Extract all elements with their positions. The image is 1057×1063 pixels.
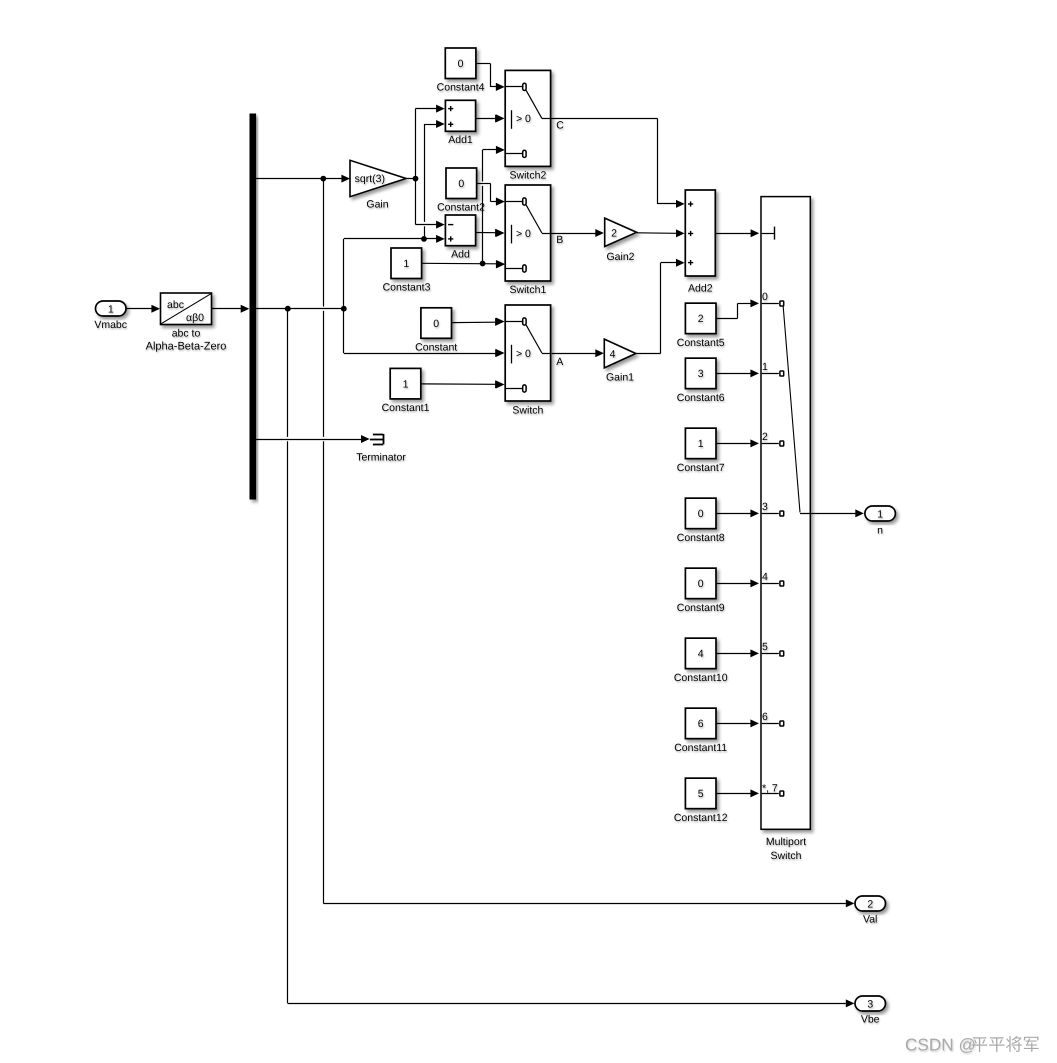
constant block Constant10 value 4 bbox=[674, 638, 728, 684]
svg-text:4: 4 bbox=[610, 349, 616, 361]
wire Constant9 to Multiport port 4 bbox=[716, 579, 759, 587]
constant block Constant8 value 0 bbox=[677, 498, 725, 544]
svg-text:Constant7: Constant7 bbox=[677, 462, 725, 474]
wire Constant5 to Multiport port 0 bbox=[716, 299, 759, 318]
wire Constant3 to Switch1 in2 bbox=[422, 260, 505, 268]
wire ctrl branch to Switch control bbox=[344, 309, 504, 357]
svg-text:Constant1: Constant1 bbox=[382, 402, 430, 414]
svg-text:αβ0: αβ0 bbox=[186, 312, 204, 324]
constant block Constant4 value 0 bbox=[437, 48, 485, 94]
svg-text:2: 2 bbox=[698, 313, 704, 325]
svg-text:Gain1: Gain1 bbox=[606, 372, 634, 384]
junction dot Add1 branch bbox=[421, 236, 427, 242]
outport 2 Val bbox=[855, 896, 886, 926]
svg-text:1: 1 bbox=[877, 508, 883, 520]
constant block Constant11 value 6 bbox=[674, 708, 727, 754]
svg-text:Constant11: Constant11 bbox=[674, 742, 727, 754]
wire Constant12 to Multiport port 7 bbox=[716, 789, 759, 797]
sum block Add1 bbox=[445, 100, 475, 146]
bus bar (mux) bbox=[250, 114, 257, 500]
svg-text:0: 0 bbox=[433, 318, 439, 330]
svg-text:Terminator: Terminator bbox=[356, 452, 406, 464]
svg-text:Constant2: Constant2 bbox=[437, 201, 485, 213]
Terminator block bbox=[356, 434, 406, 464]
wire abc block to bus bbox=[212, 305, 249, 313]
junction dot Constant3 branch bbox=[480, 261, 486, 267]
wire Constant11 to Multiport port 6 bbox=[716, 719, 759, 727]
constant block Constant value 0 bbox=[415, 308, 457, 354]
wire Gain out down to Add minus input bbox=[416, 179, 445, 229]
svg-text:> 0: > 0 bbox=[516, 113, 531, 125]
inport 1 Vmabc bbox=[94, 301, 127, 331]
svg-text:Val: Val bbox=[863, 914, 877, 926]
svg-text:2: 2 bbox=[762, 431, 768, 443]
wire Gain out up to Add1 first input bbox=[416, 105, 445, 179]
outport 1 n bbox=[865, 506, 896, 536]
svg-text:Constant9: Constant9 bbox=[677, 602, 725, 614]
svg-text:0: 0 bbox=[458, 178, 464, 190]
switch block Switch bbox=[496, 305, 551, 416]
constant block Constant2 value 0 bbox=[437, 168, 485, 213]
node C label bbox=[556, 120, 564, 132]
svg-text:Vmabc: Vmabc bbox=[94, 319, 127, 331]
wire Constant6 to Multiport port 1 bbox=[716, 369, 759, 377]
wire long vertical to Val bbox=[323, 179, 854, 908]
wire long vertical to Vbe bbox=[288, 309, 855, 1008]
svg-text:Constant8: Constant8 bbox=[677, 532, 725, 544]
wire ctrl branch up to Add plus input bbox=[344, 235, 445, 309]
svg-text:Add: Add bbox=[451, 248, 470, 260]
svg-text:C: C bbox=[556, 120, 564, 132]
wire Gain2 to Add2 in2 bbox=[637, 229, 685, 237]
switch block Switch1 bbox=[496, 185, 551, 296]
wire Multiport Switch output to outport n bbox=[800, 509, 864, 517]
svg-text:Gain: Gain bbox=[366, 199, 388, 211]
wire Constant3 branch up to Switch2 in2 bbox=[483, 146, 505, 264]
junction dot on Gain wire bbox=[320, 176, 326, 182]
outport 3 Vbe bbox=[855, 996, 886, 1026]
gain block Gain2 value 2 bbox=[605, 218, 637, 263]
wire Constant2 to Switch1 in1 bbox=[477, 184, 505, 206]
svg-text:sqrt(3): sqrt(3) bbox=[355, 173, 385, 185]
wire Add2 to Multiport Switch control bbox=[716, 229, 760, 237]
svg-text:1: 1 bbox=[698, 438, 704, 450]
svg-text:3: 3 bbox=[698, 368, 704, 380]
svg-text:Vbe: Vbe bbox=[861, 1014, 880, 1026]
svg-text:Constant4: Constant4 bbox=[437, 82, 485, 94]
svg-text:0: 0 bbox=[698, 508, 704, 520]
constant block Constant6 value 3 bbox=[677, 358, 725, 404]
wire bus main alpha line y309 bbox=[256, 308, 344, 310]
wire Gain1 up to Add2 in3 bbox=[636, 259, 685, 354]
svg-text:2: 2 bbox=[611, 227, 617, 239]
svg-text:Add1: Add1 bbox=[448, 134, 473, 146]
gain block Gain1 value 4 bbox=[604, 339, 636, 384]
sum block Add bbox=[445, 215, 475, 260]
svg-text:n: n bbox=[877, 524, 883, 536]
abc to Alpha-Beta-Zero block U1 bbox=[146, 293, 227, 353]
svg-text:Constant5: Constant5 bbox=[677, 337, 725, 349]
svg-text:Switch1: Switch1 bbox=[510, 284, 547, 296]
svg-text:3: 3 bbox=[867, 998, 873, 1010]
wire Constant7 to Multiport port 2 bbox=[716, 439, 759, 447]
sum block Add2 bbox=[685, 190, 715, 294]
svg-text:Switch: Switch bbox=[512, 404, 543, 416]
wire bus to Terminator bbox=[256, 435, 370, 443]
wire Constant to Switch in1 bbox=[452, 318, 504, 326]
wire Constant1 to Switch in2 bbox=[421, 380, 504, 388]
wire Constant8 to Multiport port 3 bbox=[716, 509, 759, 517]
junction dot node ctrl-branch bbox=[341, 306, 347, 312]
svg-text:6: 6 bbox=[698, 718, 704, 730]
svg-text:0: 0 bbox=[458, 58, 464, 70]
node A label bbox=[556, 356, 563, 368]
svg-text:0: 0 bbox=[698, 578, 704, 590]
svg-text:2: 2 bbox=[867, 898, 873, 910]
svg-text:Add2: Add2 bbox=[688, 282, 713, 294]
node B label bbox=[556, 234, 563, 246]
svg-text:Switch: Switch bbox=[771, 850, 802, 862]
gain block Gain sqrt(3) bbox=[350, 160, 406, 210]
svg-text:1: 1 bbox=[403, 258, 409, 270]
junction dot node Vbe-branch bbox=[285, 306, 291, 312]
watermark CSDN @平平将军 bbox=[905, 1035, 1039, 1055]
svg-text:Constant12: Constant12 bbox=[674, 812, 728, 824]
junction dot Gain output bbox=[413, 176, 419, 182]
svg-text:4: 4 bbox=[762, 571, 768, 583]
wire Switch2 output C to Add2 in1 bbox=[551, 119, 685, 208]
svg-text:Constant3: Constant3 bbox=[383, 281, 431, 293]
wire Switch output A to Gain1 bbox=[552, 349, 604, 357]
svg-text:abc: abc bbox=[167, 299, 184, 311]
multiport switch block Multiport Switch bbox=[761, 197, 810, 862]
wire Add1 to Switch2 control bbox=[476, 115, 504, 123]
svg-text:*, 7: *, 7 bbox=[762, 782, 778, 794]
wire branch up to Add1 second input bbox=[424, 120, 445, 239]
constant block Constant7 value 1 bbox=[677, 428, 725, 474]
constant block Constant9 value 0 bbox=[677, 568, 725, 614]
wire Add to Switch1 control bbox=[476, 229, 504, 237]
svg-text:1: 1 bbox=[403, 378, 409, 390]
svg-text:0: 0 bbox=[762, 291, 768, 303]
svg-text:Constant: Constant bbox=[415, 341, 457, 353]
svg-text:1: 1 bbox=[108, 303, 114, 315]
svg-text:Switch2: Switch2 bbox=[510, 170, 547, 182]
svg-text:Gain2: Gain2 bbox=[606, 251, 634, 263]
svg-text:abc to: abc to bbox=[172, 328, 201, 340]
svg-text:3: 3 bbox=[762, 501, 768, 513]
svg-text:Alpha-Beta-Zero: Alpha-Beta-Zero bbox=[146, 341, 227, 353]
svg-text:A: A bbox=[556, 356, 563, 368]
svg-text:B: B bbox=[556, 234, 563, 246]
svg-text:> 0: > 0 bbox=[516, 228, 531, 240]
svg-text:> 0: > 0 bbox=[516, 348, 531, 360]
svg-text:1: 1 bbox=[762, 361, 768, 373]
wire Vmabc to abc block bbox=[127, 305, 161, 313]
wire bus to Gain bbox=[256, 175, 350, 183]
constant block Constant1 value 1 bbox=[382, 368, 430, 413]
constant block Constant5 value 2 bbox=[677, 303, 725, 349]
wire Constant4 to Switch2 in1 bbox=[476, 64, 505, 91]
constant block Constant3 value 1 bbox=[383, 248, 431, 293]
svg-text:5: 5 bbox=[762, 641, 768, 653]
constant block Constant12 value 5 bbox=[674, 778, 728, 824]
svg-text:4: 4 bbox=[698, 648, 704, 660]
svg-text:CSDN @: CSDN @ bbox=[905, 1035, 976, 1055]
svg-text:Constant10: Constant10 bbox=[674, 672, 728, 684]
wire Gain output bbox=[406, 178, 415, 180]
svg-text:Multiport: Multiport bbox=[766, 836, 806, 848]
wire Switch1 output B to Gain2 bbox=[551, 229, 604, 237]
svg-text:5: 5 bbox=[698, 788, 704, 800]
wire Constant10 to Multiport port 5 bbox=[716, 649, 759, 657]
svg-text:6: 6 bbox=[762, 711, 768, 723]
switch block Switch2 bbox=[496, 70, 551, 181]
svg-text:Constant6: Constant6 bbox=[677, 392, 725, 404]
